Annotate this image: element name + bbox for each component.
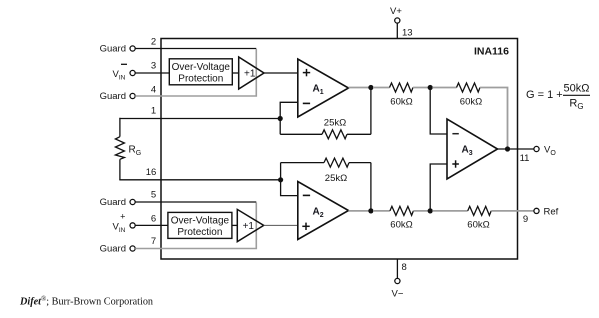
node X junction	[428, 85, 433, 90]
svg-text:V+: V+	[390, 6, 402, 17]
gain equation G = 1 + 50k/RG	[526, 83, 590, 112]
svg-text:16: 16	[146, 167, 157, 178]
Guard terminal pin 2	[100, 44, 136, 55]
svg-text:Guard: Guard	[100, 197, 126, 208]
buffer +1 (top)	[239, 57, 264, 89]
svg-text:G = 1 +: G = 1 +	[526, 89, 563, 101]
svg-text:Guard: Guard	[100, 91, 126, 102]
svg-text:V−: V−	[392, 289, 404, 300]
wire pin 6 to over-voltage protection (bottom)	[135, 224, 168, 226]
svg-text:13: 13	[402, 28, 413, 39]
guard ring wire pin 7 (gray)	[135, 203, 256, 249]
resistor 60k (node Y to Ref)	[432, 206, 534, 230]
wire A3 output to Vo terminal	[498, 148, 534, 150]
wire buffer to A1 + input	[264, 72, 298, 74]
svg-text:25kΩ: 25kΩ	[324, 118, 346, 129]
svg-text:7: 7	[151, 236, 156, 247]
wire OVP to buffer (bottom)	[232, 224, 237, 226]
resistor 60k (node X to A3 output, feedback)	[432, 83, 507, 147]
wire buffer to A2 + input	[264, 224, 298, 226]
over-voltage protection box (bottom)	[168, 212, 232, 238]
svg-text:Guard: Guard	[100, 44, 126, 55]
wire A1 output (gray)	[349, 87, 371, 89]
wire A1 inverting input	[280, 102, 298, 134]
wire OVP to buffer (top)	[232, 72, 238, 74]
Guard terminal pin 4	[100, 91, 136, 102]
svg-text:25kΩ: 25kΩ	[325, 173, 347, 184]
svg-text:+1: +1	[243, 221, 255, 232]
svg-text:Ref: Ref	[544, 207, 559, 218]
op-amp A2	[298, 182, 349, 240]
wire A2 feedback vertical	[370, 163, 372, 211]
svg-text:60kΩ: 60kΩ	[460, 97, 482, 108]
svg-text:4: 4	[151, 85, 156, 96]
node A1 output junction	[368, 85, 373, 90]
guard ring wire pin 4 (gray)	[135, 49, 256, 96]
svg-text:+: +	[120, 212, 125, 222]
Vo terminal pin 11	[534, 145, 556, 158]
V_IN- terminal pin 3	[113, 64, 136, 81]
svg-text:Protection: Protection	[178, 74, 223, 85]
Guard terminal pin 5	[100, 197, 136, 208]
svg-text:Over-Voltage: Over-Voltage	[171, 215, 230, 226]
wire guard pin 5 to guard ring top edge (bottom cell)	[135, 201, 256, 203]
svg-text:Over-Voltage: Over-Voltage	[172, 62, 231, 73]
V_IN+ terminal pin 6	[113, 212, 136, 235]
resistor RG	[115, 118, 141, 180]
svg-text:Protection: Protection	[177, 227, 222, 238]
wire node Y to A3 non-inverting input	[430, 164, 447, 211]
over-voltage protection box (top)	[169, 59, 232, 85]
svg-text:3: 3	[151, 61, 156, 72]
node pin1/A1 feedback junction	[278, 116, 283, 121]
svg-text:11: 11	[520, 153, 530, 164]
svg-text:60kΩ: 60kΩ	[390, 220, 412, 231]
wire A1 feedback vertical	[370, 88, 372, 135]
IC boundary box INA116	[161, 39, 518, 260]
svg-text:60kΩ: 60kΩ	[390, 97, 412, 108]
svg-text:Difet®; Burr-Brown Corporation: Difet®; Burr-Brown Corporation	[19, 295, 153, 308]
pin 16 wire (RG bottom)	[119, 179, 280, 181]
node A2 output junction	[368, 208, 373, 213]
svg-text:6: 6	[151, 214, 156, 225]
svg-text:9: 9	[523, 214, 528, 225]
wire pin 3 to over-voltage protection	[135, 72, 169, 74]
wire A2 inverting input	[281, 163, 298, 196]
resistor 25k (A2 feedback)	[281, 158, 371, 184]
svg-text:8: 8	[402, 262, 407, 273]
wire node X to A3 inverting input	[430, 88, 447, 135]
svg-text:+1: +1	[244, 69, 256, 80]
svg-text:50kΩ: 50kΩ	[564, 83, 590, 95]
resistor 60k (A1 output to node X)	[373, 83, 430, 108]
wire A2 output (gray)	[349, 210, 371, 212]
V- terminal pin 8	[392, 259, 404, 300]
svg-text:1: 1	[151, 106, 156, 117]
Ref terminal pin 9	[534, 207, 559, 218]
V+ terminal pin 13	[390, 6, 402, 39]
node A3 output junction	[505, 146, 510, 151]
wire guard pin 2 to guard ring top edge	[135, 48, 256, 50]
svg-text:2: 2	[151, 37, 156, 48]
svg-text:Guard: Guard	[100, 244, 126, 255]
svg-text:60kΩ: 60kΩ	[467, 220, 489, 231]
node pin16/A2 feedback junction	[278, 177, 283, 182]
resistor 25k (A1 feedback)	[280, 118, 371, 139]
svg-text:INA116: INA116	[474, 46, 509, 58]
svg-text:5: 5	[151, 190, 156, 201]
op-amp A3	[447, 119, 498, 179]
resistor 60k (A2 output to node Y)	[373, 206, 430, 230]
pin 1 wire (RG top)	[119, 118, 280, 120]
op-amp A1	[298, 59, 349, 117]
buffer +1 (bottom)	[237, 209, 263, 241]
node Y junction	[428, 208, 433, 213]
Guard terminal pin 7	[100, 244, 136, 255]
